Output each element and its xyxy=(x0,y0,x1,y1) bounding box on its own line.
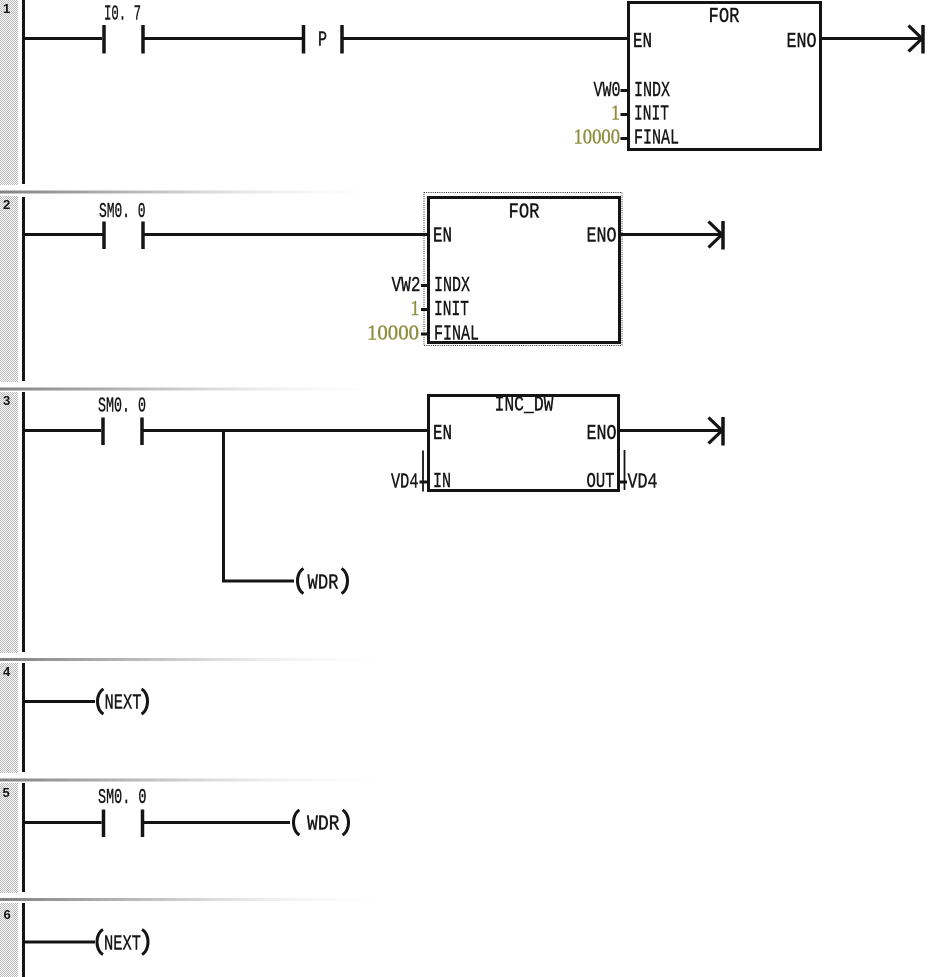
branch wire to WDR coil xyxy=(222,580,294,583)
wire contact P to FOR box EN xyxy=(344,37,630,40)
svg-text:VD4: VD4 xyxy=(391,472,419,495)
field edge right of OUT xyxy=(624,450,626,490)
svg-text:INDX: INDX xyxy=(434,275,470,298)
pin tick OUT xyxy=(619,481,628,484)
svg-text:NEXT: NEXT xyxy=(105,693,142,716)
left power rail network 6 xyxy=(22,903,25,977)
svg-text:WDR: WDR xyxy=(307,814,340,837)
gutter network 6 xyxy=(0,903,18,977)
svg-text:NEXT: NEXT xyxy=(104,934,141,957)
svg-text:1: 1 xyxy=(411,296,420,320)
svg-text:ENO: ENO xyxy=(587,226,617,249)
continuation arrow network 3 xyxy=(709,417,724,446)
svg-text:WDR: WDR xyxy=(308,573,339,596)
gutter network 2 xyxy=(0,196,18,382)
svg-text:1: 1 xyxy=(611,101,620,125)
FOR box U1 xyxy=(629,3,821,151)
wire rail to contact SM0.0 network 5 xyxy=(23,821,102,824)
coil WDR network 3 xyxy=(298,569,348,596)
wire ENO output network 3 xyxy=(618,429,721,432)
svg-text:EN: EN xyxy=(433,226,452,249)
svg-text:SM0. 0: SM0. 0 xyxy=(98,396,146,419)
contact SM0.0 network 5 xyxy=(104,810,143,838)
contact P (positive edge) xyxy=(304,25,343,54)
network divider 4 xyxy=(0,658,560,661)
svg-text:VW2: VW2 xyxy=(392,275,421,298)
network divider 6 xyxy=(0,898,560,901)
pin tick FINAL network 2 xyxy=(421,333,428,336)
wire rail to contact SM0.0 network 3 xyxy=(23,429,101,432)
FOR box U2 xyxy=(429,198,620,347)
continuation arrow network 2 xyxy=(709,221,724,250)
svg-text:EN: EN xyxy=(433,423,452,446)
coil NEXT network 4 xyxy=(98,689,148,716)
gutter network 5 xyxy=(0,783,18,893)
left power rail network 2 xyxy=(22,197,25,381)
selection marquee around FOR box xyxy=(424,193,622,346)
svg-text:FOR: FOR xyxy=(509,202,540,225)
contact I0.7 xyxy=(104,4,143,54)
wire contact to FOR box network 2 xyxy=(145,233,430,236)
svg-text:FOR: FOR xyxy=(709,6,740,29)
svg-text:VD4: VD4 xyxy=(628,472,658,495)
wire rail to contact SM0.0 network 2 xyxy=(23,233,103,236)
network divider 5 xyxy=(0,779,560,782)
svg-text:6: 6 xyxy=(4,907,11,922)
network divider 2 xyxy=(0,191,560,194)
svg-text:OUT: OUT xyxy=(587,471,615,494)
pin tick INIT network 2 xyxy=(421,308,428,311)
gutter network 4 xyxy=(0,663,18,773)
svg-text:10000: 10000 xyxy=(574,125,621,149)
network divider 3 xyxy=(0,388,560,391)
svg-text:2: 2 xyxy=(3,197,10,212)
wire rail to NEXT coil network 6 xyxy=(23,941,95,944)
svg-text:I0. 7: I0. 7 xyxy=(104,4,141,27)
contact SM0.0 network 3 xyxy=(103,418,142,446)
svg-text:INIT: INIT xyxy=(434,299,469,322)
svg-text:INC_DW: INC_DW xyxy=(495,395,554,418)
svg-text:10000: 10000 xyxy=(367,321,419,345)
pin tick INDX network 2 xyxy=(421,284,428,287)
svg-text:4: 4 xyxy=(3,664,11,679)
coil NEXT network 6 xyxy=(97,930,148,957)
svg-text:FINAL: FINAL xyxy=(634,128,679,151)
field edge left of IN xyxy=(422,451,424,492)
pin tick INDX xyxy=(621,89,629,92)
branch wire down xyxy=(222,429,225,581)
pin tick FINAL xyxy=(621,137,629,140)
wire ENO output network 1 xyxy=(820,37,921,40)
gutter network 3 xyxy=(0,392,18,653)
svg-text:IN: IN xyxy=(433,471,451,494)
svg-text:EN: EN xyxy=(633,31,652,54)
wire contact to INC_DW box network 3 xyxy=(144,429,430,432)
wire rail to NEXT coil network 4 xyxy=(23,700,95,703)
svg-text:INDX: INDX xyxy=(634,80,670,103)
gutter network 1 xyxy=(0,0,18,185)
wire ENO output network 2 xyxy=(619,233,721,236)
left power rail network 3 xyxy=(22,392,25,652)
INC_DW box U3 xyxy=(429,395,619,495)
continuation arrow network 1 xyxy=(909,25,924,54)
svg-text:SM0. 0: SM0. 0 xyxy=(98,787,147,810)
svg-text:5: 5 xyxy=(3,785,10,800)
left power rail network 5 xyxy=(22,783,25,892)
wire contact to WDR coil network 5 xyxy=(144,821,290,824)
left power rail network 4 xyxy=(22,663,25,772)
svg-text:SM0. 0: SM0. 0 xyxy=(99,201,146,224)
pin tick IN xyxy=(420,481,429,484)
svg-text:INIT: INIT xyxy=(634,104,669,127)
svg-text:ENO: ENO xyxy=(787,31,817,54)
wire rail to contact I0.7 xyxy=(23,37,102,40)
pin tick INIT xyxy=(621,113,629,116)
svg-text:1: 1 xyxy=(3,1,10,16)
svg-text:3: 3 xyxy=(3,393,10,408)
contact SM0.0 network 2 xyxy=(104,222,143,250)
coil WDR network 5 xyxy=(294,810,349,837)
svg-text:ENO: ENO xyxy=(587,423,617,446)
wire contact I0.7 to contact P xyxy=(145,37,304,40)
svg-text:FINAL: FINAL xyxy=(434,324,479,347)
left power rail network 1 xyxy=(22,0,25,184)
svg-text:P: P xyxy=(318,30,327,53)
